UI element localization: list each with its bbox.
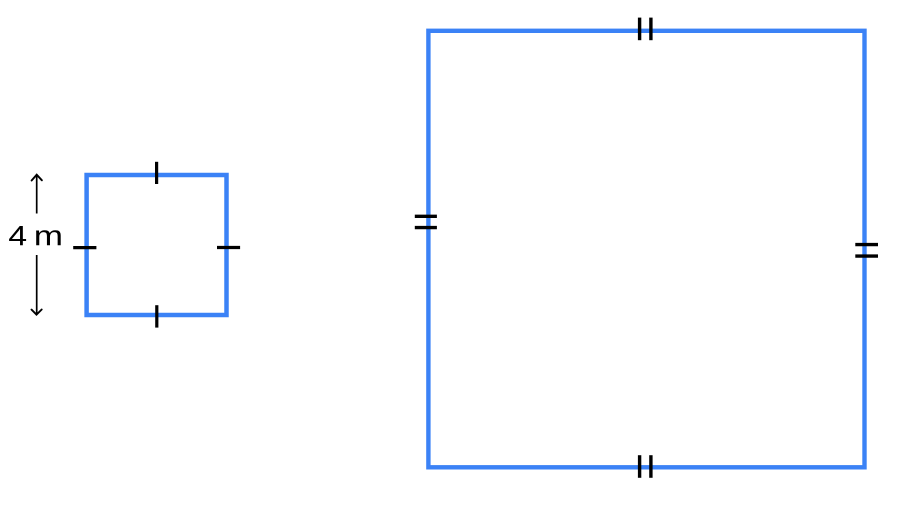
- dimension arrowhead bottom: [32, 310, 42, 315]
- double tick marks large square bottom: [638, 455, 641, 478]
- large square: [428, 31, 864, 468]
- small square: [87, 175, 227, 315]
- tick mark small square top: [155, 162, 158, 184]
- double tick marks large square top: [638, 18, 641, 41]
- label 4 m : letter m: [36, 230, 61, 245]
- double tick marks large square left: [415, 215, 437, 218]
- double tick marks large square right: [855, 243, 878, 246]
- tick mark small square left: [73, 246, 96, 249]
- dimension arrowhead top: [32, 175, 42, 181]
- tick mark small square right: [217, 246, 240, 249]
- dimension arrow shaft lower segment: [36, 255, 38, 314]
- label 4 m : digit 4: [9, 226, 26, 245]
- tick mark small square bottom: [155, 305, 158, 327]
- dimension arrow shaft upper segment: [36, 176, 38, 214]
